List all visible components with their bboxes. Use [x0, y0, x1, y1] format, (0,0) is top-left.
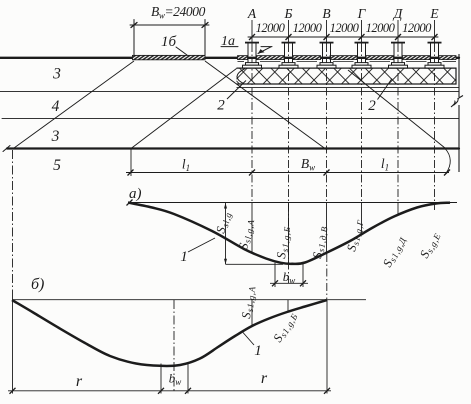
- settlement ordinate at axis Г: [361, 203, 363, 235]
- settlement ordinate at axis A: [251, 300, 253, 326]
- columns 1a with footings on axes: [243, 43, 445, 69]
- line under mat: [237, 87, 460, 89]
- column axis D(Д) dash-dot: [397, 20, 399, 44]
- 12000 dimension line across column axes: [248, 36, 438, 38]
- leader for right label 2: [378, 79, 393, 100]
- svg-text:12000: 12000: [293, 21, 323, 35]
- reference line: [13, 299, 367, 301]
- svg-text:3: 3: [51, 128, 60, 145]
- curved extension at right end: [445, 149, 450, 173]
- column axis G(Г) dash-dot: [361, 20, 363, 44]
- column 1a on axis A with footing: [243, 43, 262, 69]
- axis of trough minimum dash-dot: [173, 300, 175, 391]
- leader for curve label 1: [188, 238, 215, 252]
- pressure spread line from mat left end: [131, 69, 237, 149]
- Bw extension lines down to strip: [133, 28, 135, 55]
- right edge vertical (axis В extended): [326, 300, 328, 394]
- max settlement measure line with arrows: [225, 203, 227, 264]
- slab underside line segments: [238, 61, 457, 63]
- svg-text:В: В: [322, 6, 330, 21]
- svg-text:4: 4: [52, 98, 60, 115]
- rotated settlement labels section b: [239, 285, 300, 345]
- column 1a on axis Д with footing: [389, 43, 408, 69]
- svg-text:12000: 12000: [402, 21, 432, 35]
- svg-text:1б: 1б: [161, 34, 177, 50]
- extension from spread point left: [130, 149, 132, 177]
- bw extension lines: [160, 364, 162, 394]
- svg-text:Г: Г: [357, 6, 367, 21]
- svg-text:1а: 1а: [221, 34, 235, 49]
- Bw=24000 dimension line: [130, 24, 209, 26]
- column axis B(Б) dash-dot: [288, 20, 290, 44]
- svg-text:Д: Д: [392, 6, 404, 21]
- section a) settlement diagram: [127, 200, 458, 288]
- rounded break at mat left end: [237, 69, 245, 84]
- rotated settlement labels section a: [213, 210, 442, 270]
- column axis E(Е) dash-dot: [434, 20, 436, 44]
- svg-text:12000: 12000: [366, 21, 396, 35]
- bw extension lines: [274, 263, 276, 287]
- mat foundation 2 (cross-hatched): [237, 54, 464, 172]
- settlement ordinate at axis A: [251, 203, 253, 253]
- svg-text:5: 5: [53, 157, 61, 174]
- svg-text:3: 3: [52, 66, 61, 83]
- svg-text:а): а): [129, 186, 142, 202]
- floor slab hatched strips between columns: [238, 56, 457, 60]
- settlement ordinate at axis Е: [434, 203, 436, 210]
- l1 / Bw / l1 dimension line under soil profile: [126, 149, 450, 177]
- settlement ordinate at axis Б: [288, 203, 290, 264]
- settlement ordinate at axis Д: [397, 203, 399, 215]
- bw dimension line: [270, 282, 308, 284]
- pressure spread line from strip right edge: [205, 61, 327, 150]
- svg-text:12000: 12000: [330, 21, 360, 35]
- pressure spread line on right side: [348, 70, 445, 148]
- svg-text:А: А: [247, 6, 257, 21]
- right boundary edge with break mark: [458, 54, 460, 97]
- column 1a on axis Е with footing: [425, 43, 444, 69]
- soil layer boundary 4/3: [2, 118, 459, 120]
- svg-text:r: r: [261, 370, 268, 387]
- svg-text:1: 1: [254, 343, 262, 359]
- svg-text:2: 2: [217, 98, 225, 114]
- column axis A dash-dot: [251, 20, 253, 44]
- section b) settlement diagram: [8, 150, 366, 394]
- ground line (soil surface): [0, 57, 459, 59]
- svg-text:1: 1: [180, 249, 188, 265]
- svg-text:Е: Е: [429, 6, 439, 21]
- settlement ordinate at axis В: [326, 203, 328, 254]
- left construction vertical: [12, 150, 14, 296]
- leader/underline for label 1a: [221, 46, 238, 48]
- leader for label 1b: [176, 47, 187, 55]
- strip foundation 1b hatched: [133, 55, 206, 59]
- leader for left label 2: [227, 81, 246, 100]
- svg-text:2: 2: [368, 98, 376, 114]
- soil layer boundary 3/4: [0, 91, 459, 93]
- tick at left end of layer5 line: [3, 146, 10, 152]
- settlement ordinate at axis Б: [287, 300, 289, 312]
- svg-text:Б: Б: [284, 6, 293, 21]
- reference line: [128, 202, 457, 204]
- slash ticks on 12000 dimension line: [249, 34, 438, 40]
- leader for curve label 1: [243, 333, 254, 346]
- bottom dimension line r / bw / r: [8, 390, 331, 392]
- soil layer boundary 3/5 (thick): [7, 147, 459, 149]
- column axis V(В) dash-dot (continues to lower diagram): [326, 20, 328, 44]
- column 1a on axis В with footing: [317, 43, 336, 69]
- column 1a on axis Б with footing: [279, 43, 298, 69]
- settlement trough curve 1: [12, 300, 327, 366]
- pressure spread line from strip left edge: [14, 61, 134, 148]
- svg-text:r: r: [76, 373, 83, 390]
- settlement trough curve 1: [128, 203, 450, 264]
- column 1a on axis Г with footing: [352, 43, 371, 69]
- svg-text:12000: 12000: [256, 21, 286, 35]
- svg-text:б): б): [31, 276, 44, 293]
